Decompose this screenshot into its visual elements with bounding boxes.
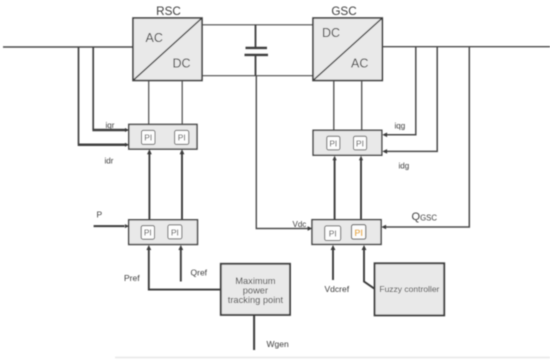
wire: Vdc PI to grid current PI (left, arrow up): [334, 159, 336, 220]
svg-text:DC: DC: [173, 57, 191, 71]
block: Maximum power tracking point: [221, 264, 290, 315]
wire: RSC to rotor current PI (left): [148, 81, 150, 125]
capacitor bottom plate: [245, 54, 269, 56]
RSC diagonal: [133, 18, 202, 81]
svg-text:Vdcref: Vdcref: [325, 284, 350, 294]
wire: power PI to current PI (right, arrow up): [181, 153, 183, 220]
svg-text:power: power: [243, 286, 268, 296]
wire: right AC grid bus: [382, 46, 550, 48]
block: Fuzzy controller: [375, 263, 445, 315]
arrow P into PI block: [125, 224, 129, 228]
wire: left AC grid bus: [3, 46, 133, 48]
wire: iqg sense drop: [386, 47, 416, 135]
wire: fuzzy controller output to PI: [364, 248, 375, 288]
capacitor C (DC link): [245, 25, 269, 76]
PI block U3: grid current controllers: [313, 130, 382, 155]
fuzzy controller body: [375, 263, 445, 315]
arrow Vdc into PI block: [308, 226, 313, 231]
U2 body: [129, 220, 198, 245]
svg-text:P: P: [97, 210, 103, 220]
svg-text:iqr: iqr: [106, 121, 115, 130]
svg-text:QGSC: QGSC: [412, 211, 438, 223]
svg-text:AC: AC: [351, 57, 368, 71]
wire: Vdc sense from DC link capacitor: [256, 76, 308, 229]
svg-text:PI: PI: [171, 227, 179, 237]
wire: DC link bottom: [202, 75, 313, 77]
svg-text:DC: DC: [322, 26, 340, 40]
svg-text:Pref: Pref: [124, 273, 140, 283]
PI controller U1b: [175, 130, 189, 144]
capacitor top lead: [255, 25, 257, 47]
svg-text:idg: idg: [399, 162, 410, 171]
PI controller U1a: [142, 130, 156, 144]
PI controller U4b (fuzzy-tuned, highlighted): [352, 225, 366, 239]
capacitor top plate: [246, 47, 268, 49]
svg-text:PI: PI: [329, 229, 337, 239]
svg-text:PI: PI: [329, 138, 337, 148]
wire: Pref from MPPT: [149, 248, 221, 289]
svg-text:idr: idr: [105, 157, 114, 166]
wire: power PI to current PI (left, arrow up): [148, 153, 150, 220]
PI controller U2b: [168, 225, 182, 239]
converter RSC (AC/DC): [133, 18, 202, 81]
svg-text:iqg: iqg: [395, 122, 406, 131]
svg-text:PI: PI: [144, 228, 152, 238]
wire: RSC to rotor current PI (right): [181, 81, 183, 125]
svg-text:PI: PI: [178, 133, 186, 143]
svg-text:RSC: RSC: [156, 5, 181, 18]
svg-text:AC: AC: [146, 31, 163, 45]
PI controller U4a: [325, 226, 341, 241]
svg-text:tracking point: tracking point: [228, 295, 284, 305]
svg-text:Vdc: Vdc: [293, 220, 307, 229]
capacitor bottom lead: [255, 56, 257, 76]
arrow idr into PI block: [125, 143, 129, 147]
arrow iqr into PI block: [125, 128, 129, 132]
MPPT body: [221, 264, 290, 315]
converter GSC (DC/AC): [313, 18, 382, 81]
GSC diagonal: [313, 18, 382, 81]
PI block U2: P/Q power controllers: [129, 220, 198, 245]
svg-text:PI: PI: [354, 228, 363, 238]
svg-text:PI: PI: [144, 133, 152, 143]
wire: P input: [94, 225, 125, 227]
U1 body: [129, 124, 197, 149]
wire: Wgen input: [253, 315, 255, 350]
wire: DC link top: [202, 24, 313, 26]
wire: Qref input stub: [180, 248, 182, 281]
PI block U4: Vdc / Q controllers (second PI fuzzy-tuned): [312, 220, 381, 245]
RSC body: [133, 18, 202, 81]
GSC body: [313, 18, 382, 81]
svg-text:GSC: GSC: [331, 5, 356, 18]
svg-text:Qref: Qref: [191, 268, 208, 278]
svg-text:Wgen: Wgen: [267, 339, 289, 349]
wire: Qgsc sense drop: [385, 47, 469, 227]
wire: GSC to grid current PI (right): [361, 81, 363, 131]
svg-text:PI: PI: [356, 138, 364, 148]
faint page rule at bottom: [115, 357, 550, 359]
wire: iqr sense drop: [92, 47, 94, 129]
wire: idr sense drop: [78, 47, 80, 144]
PI controller U3a: [327, 136, 340, 150]
arrow idg into PI block: [382, 149, 387, 154]
wire: Vdcref input stub: [332, 248, 334, 280]
arrow iqg into PI block: [382, 133, 387, 138]
svg-text:Maximum: Maximum: [235, 276, 276, 286]
PI controller U2a: [141, 226, 154, 240]
wire: idg sense drop: [386, 47, 437, 152]
wire: Vdc PI to grid current PI (right, arrow up): [360, 159, 362, 220]
wire: GSC to grid current PI (left): [333, 81, 335, 131]
arrow Qgsc into PI block: [381, 225, 386, 230]
PI controller U3b: [354, 136, 367, 150]
PI block U1: rotor current controllers: [129, 124, 197, 149]
U4 body: [312, 220, 381, 245]
U3 body: [313, 130, 382, 155]
svg-text:Fuzzy controller: Fuzzy controller: [379, 284, 439, 294]
